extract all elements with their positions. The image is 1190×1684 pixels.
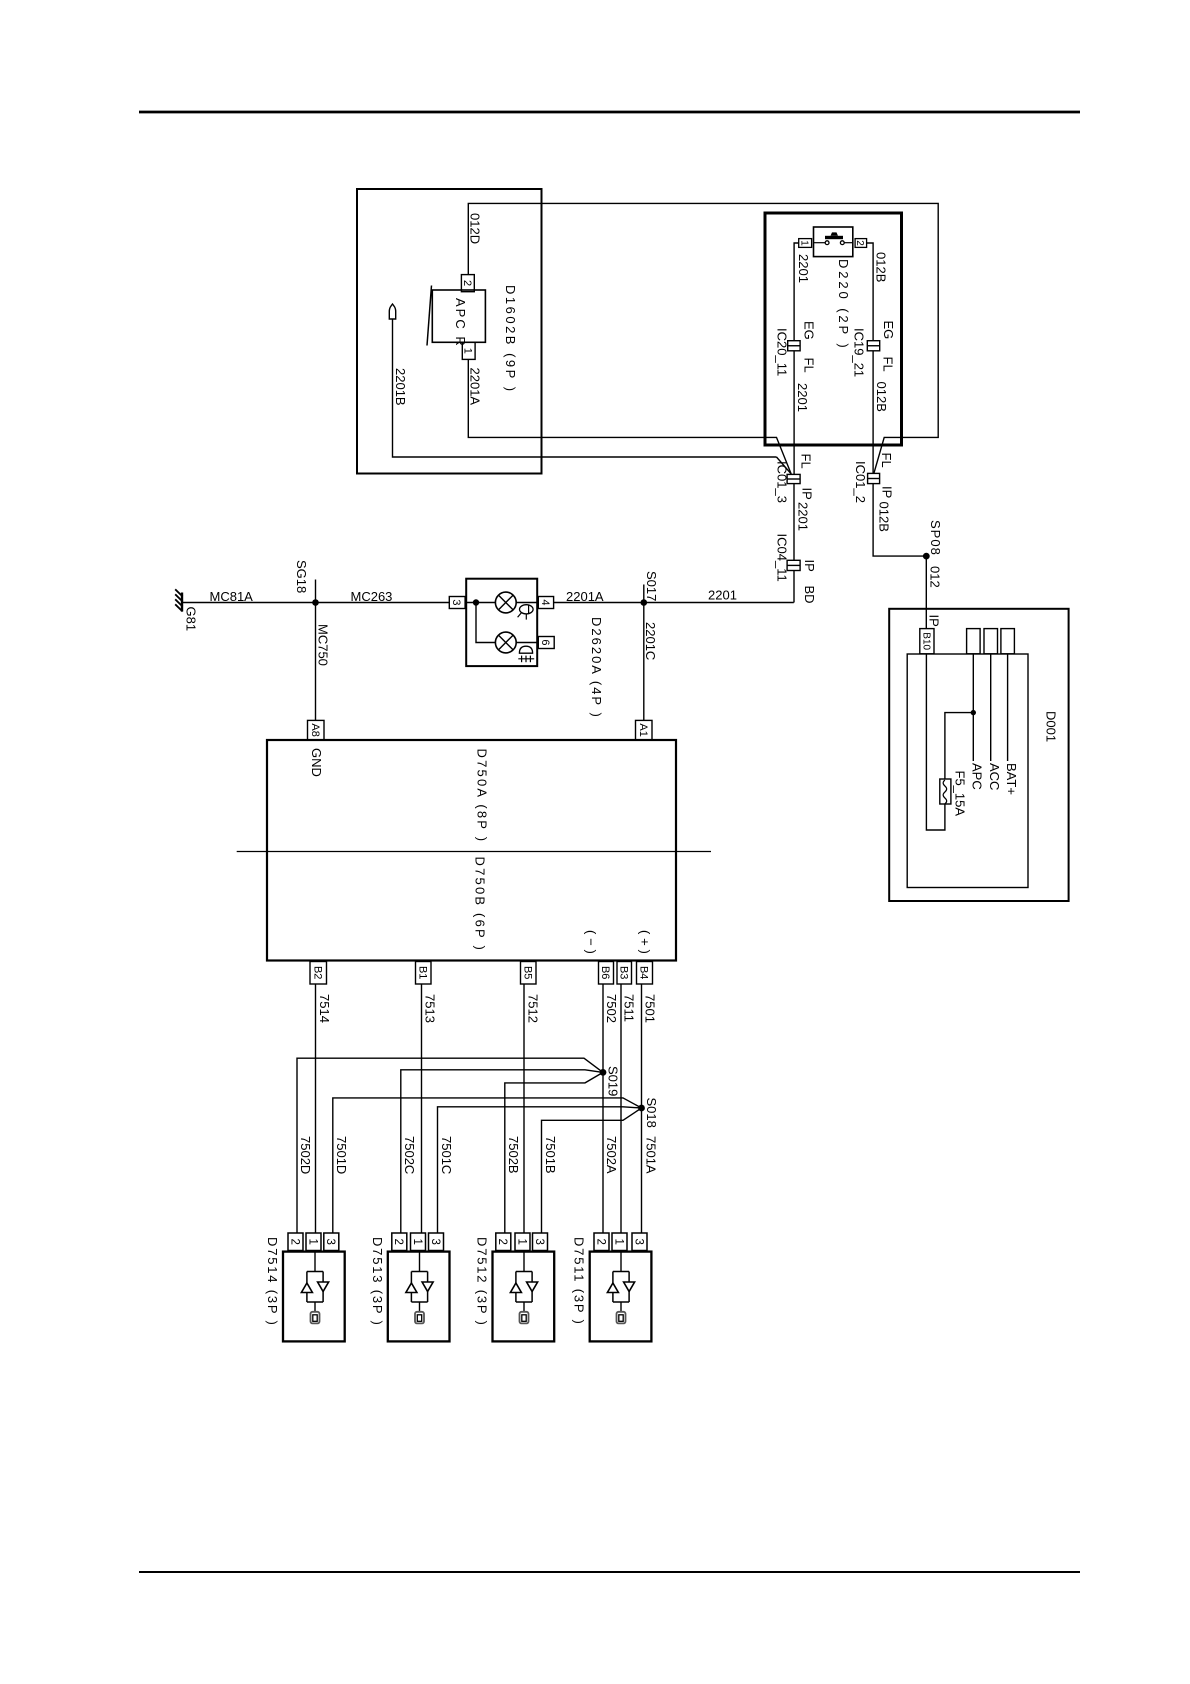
switch contact right (840, 241, 844, 245)
wire 7501B (542, 1108, 642, 1233)
svg-text:D7512 (3P ): D7512 (3P ) (475, 1237, 490, 1327)
svg-text:7513: 7513 (423, 994, 438, 1023)
wire top lamp to pin4 (516, 602, 538, 604)
svg-text:012B: 012B (874, 252, 889, 282)
pin 6 of D2620A (538, 637, 554, 649)
svg-text:B3: B3 (617, 966, 629, 979)
lamp L2 fog (495, 632, 516, 653)
pin B10 of D001 (920, 629, 934, 654)
svg-text:1: 1 (306, 1239, 318, 1245)
wire 7511 (620, 984, 622, 1233)
fog lamp icon (519, 646, 532, 653)
svg-text:BAT+: BAT+ (1004, 763, 1019, 795)
pin 2 of D220 (855, 239, 867, 248)
svg-text:2: 2 (496, 1239, 508, 1245)
svg-text:IC04_11: IC04_11 (775, 534, 790, 582)
wire 7502B (505, 1072, 603, 1233)
svg-text:2201A: 2201A (468, 368, 483, 406)
wire 7501D (333, 1098, 642, 1233)
svg-text:B10: B10 (920, 632, 931, 650)
wire 2201C (643, 603, 645, 721)
pin B5 of D750B (521, 962, 537, 985)
wire 7502D (297, 1058, 603, 1233)
wire ACC feed (990, 654, 992, 761)
pin 1 of D7513 (411, 1233, 426, 1251)
svg-text:7502: 7502 (604, 994, 619, 1023)
wire 012B EG side (867, 243, 874, 341)
svg-text:2201: 2201 (708, 588, 737, 603)
connector box D1602B (357, 189, 542, 474)
svg-text:2: 2 (854, 240, 865, 246)
wire 012B IP side (873, 484, 926, 556)
antenna terminal of wire 2201B (389, 304, 395, 319)
svg-text:SG18: SG18 (294, 560, 309, 593)
wire 2201B (393, 319, 777, 457)
ground G81 (181, 593, 183, 612)
wire 7513 (421, 984, 423, 1233)
svg-text:7501A: 7501A (644, 1136, 659, 1174)
svg-text:FL: FL (879, 453, 894, 468)
svg-text:D220 (2P ): D220 (2P ) (836, 259, 851, 351)
svg-text:3: 3 (450, 599, 462, 605)
wire 7512 (523, 984, 525, 1233)
svg-text:MC81A: MC81A (210, 589, 254, 604)
splice S017 (643, 585, 645, 603)
svg-text:B6: B6 (599, 966, 611, 979)
pin B3 of D750B (617, 962, 632, 985)
lamp unit box D2620A (466, 579, 537, 666)
wire 7501C (438, 1107, 642, 1233)
pin 3 of D7513 (429, 1233, 444, 1251)
pin 4 of D2620A (538, 597, 553, 609)
LED pair D1/D2 of D7512 (523, 1251, 525, 1272)
svg-text:S018: S018 (644, 1098, 659, 1128)
LED pair D1/D2 of D7511 (620, 1251, 622, 1272)
wire BD side down to node (793, 571, 795, 603)
svg-text:1: 1 (411, 1239, 423, 1245)
switch lead wires (814, 242, 826, 244)
control unit box D750A/D750B (267, 740, 676, 961)
splice SG18 (315, 580, 317, 603)
svg-text:2: 2 (288, 1239, 300, 1245)
LED unit box D7513 (388, 1252, 450, 1342)
wire 2201 EG side (794, 243, 799, 341)
pin A8 of D750A (308, 720, 325, 740)
pin 3 of D7514 (324, 1233, 339, 1251)
wire B10 to fuse (926, 654, 945, 830)
svg-text:GND: GND (309, 748, 324, 777)
pin B1 of D750B (416, 962, 432, 985)
svg-text:7502C: 7502C (402, 1136, 417, 1174)
splice SP08 (923, 553, 930, 560)
svg-text:IP: IP (802, 560, 817, 572)
svg-text:7511: 7511 (622, 994, 637, 1022)
switch contact left (825, 241, 829, 245)
svg-text:7501C: 7501C (439, 1136, 454, 1174)
svg-text:D7513 (3P ): D7513 (3P ) (370, 1237, 385, 1327)
svg-text:012D: 012D (468, 213, 483, 244)
svg-text:D750B (6P ): D750B (6P ) (473, 857, 488, 953)
svg-text:BD: BD (802, 586, 817, 604)
svg-text:IC01_3: IC01_3 (775, 461, 790, 503)
svg-text:1: 1 (462, 348, 474, 354)
svg-text:B5: B5 (521, 966, 533, 979)
svg-text:7514: 7514 (317, 994, 332, 1023)
svg-text:7502B: 7502B (506, 1136, 521, 1174)
bottom rule (139, 1571, 1080, 1573)
svg-text:2: 2 (392, 1239, 404, 1245)
LED pair D1/D2 of D7514 (314, 1251, 316, 1272)
wire 012D (468, 203, 938, 473)
wire 7501 (641, 984, 643, 1108)
relay armature Q lever (427, 286, 432, 346)
svg-text:FL: FL (881, 357, 896, 372)
svg-text:B2: B2 (311, 966, 323, 979)
wire fuse to APC line (945, 713, 973, 779)
pin 2 of D1602B (461, 275, 474, 292)
svg-text:7501: 7501 (643, 994, 658, 1023)
wire 2201 horizontal (554, 602, 794, 604)
pin 1 of D220 (799, 239, 812, 248)
svg-text:1: 1 (612, 1239, 624, 1245)
tail lamp icon (520, 605, 534, 614)
pin 3 of D2620A (449, 597, 465, 609)
pin B2 of D750B (310, 962, 327, 985)
inline connector IC19_21 (867, 341, 879, 351)
inline connector IC01_3 (787, 474, 800, 483)
svg-text:(−): (−) (584, 930, 599, 958)
svg-text:EG: EG (802, 321, 817, 340)
svg-text:4: 4 (539, 599, 551, 605)
svg-text:FL: FL (802, 358, 817, 373)
splice S018 (638, 1105, 645, 1112)
svg-text:SP08: SP08 (928, 520, 943, 556)
svg-text:IC19_21: IC19_21 (852, 328, 867, 377)
svg-text:IP: IP (927, 615, 942, 627)
svg-text:1: 1 (799, 240, 810, 246)
pin B6 of D750B (599, 962, 614, 985)
svg-text:G81: G81 (184, 607, 199, 632)
terminal tab ACC (984, 629, 998, 654)
svg-text:3: 3 (429, 1239, 441, 1245)
wire 7502 (602, 984, 604, 1072)
svg-text:7512: 7512 (526, 994, 541, 1023)
svg-text:IP: IP (800, 488, 815, 500)
svg-text:(+): (+) (638, 930, 653, 958)
pin 2 of D7512 (496, 1233, 511, 1251)
pin 2 of D7511 (594, 1233, 609, 1251)
wire APC feed (972, 654, 974, 761)
wire 7501A (641, 1108, 643, 1233)
switch actuator (825, 236, 843, 239)
inline connector IC20_11 (788, 341, 800, 351)
node in lamp box (473, 599, 479, 605)
LED unit box D7514 (283, 1252, 345, 1342)
svg-text:2201A: 2201A (566, 589, 604, 604)
wire 012B FL side (872, 351, 874, 474)
svg-text:ACC: ACC (987, 763, 1002, 790)
svg-text:012B: 012B (877, 502, 892, 532)
svg-text:2201C: 2201C (643, 622, 658, 660)
svg-text:2201B: 2201B (393, 368, 408, 406)
svg-text:3: 3 (324, 1239, 336, 1245)
svg-text:F5_15A: F5_15A (953, 771, 968, 817)
wire 2201 FL side (793, 351, 795, 475)
wire 7502C (401, 1070, 603, 1233)
svg-text:2: 2 (461, 280, 473, 286)
pin 1 of D1602B (462, 342, 475, 359)
pin 2 of D7513 (392, 1233, 407, 1251)
svg-text:A8: A8 (309, 723, 321, 736)
pin A1 of D750A (636, 720, 653, 740)
LED pair D1/D2 of D7513 (419, 1251, 421, 1272)
svg-text:3: 3 (632, 1239, 644, 1245)
svg-text:D750A (8P ): D750A (8P ) (475, 749, 490, 844)
wire 2201B lead to IC01_3 (777, 457, 792, 474)
wire bottom lamp to pin6 (516, 642, 538, 644)
svg-text:A1: A1 (637, 723, 649, 736)
svg-text:D7511 (3P ): D7511 (3P ) (572, 1237, 587, 1326)
svg-text:012B: 012B (874, 382, 889, 412)
svg-text:IC20_11: IC20_11 (775, 328, 790, 376)
svg-text:S019: S019 (606, 1066, 621, 1096)
terminal tab BAT+ (1001, 629, 1015, 654)
svg-text:1: 1 (515, 1239, 527, 1245)
pin B4 of D750B (637, 962, 653, 985)
divider line (237, 851, 711, 853)
svg-text:APC: APC (970, 763, 985, 790)
svg-text:D7514 (3P ): D7514 (3P ) (265, 1237, 280, 1327)
svg-text:EG: EG (881, 321, 896, 340)
node on APC line (971, 710, 976, 715)
wire MC750 (315, 603, 317, 721)
wire BAT+ feed (1007, 654, 1009, 761)
svg-text:B1: B1 (416, 966, 428, 979)
svg-text:B4: B4 (638, 966, 650, 979)
pin 1 of D7512 (515, 1233, 530, 1251)
switch box D220 (765, 213, 902, 445)
svg-text:IP: IP (880, 486, 895, 498)
fuse F5_15A (940, 779, 951, 804)
svg-text:6: 6 (539, 639, 551, 645)
switch S1 body (814, 227, 853, 257)
wire 7502A (602, 1072, 604, 1233)
pin 3 of D7511 (632, 1233, 647, 1251)
fuse box D001 outer (889, 609, 1068, 901)
pin 3 of D7512 (533, 1233, 548, 1251)
fuse box D001 inner unit (907, 654, 1028, 888)
svg-text:2201: 2201 (796, 254, 811, 283)
pin 1 of D7514 (306, 1233, 321, 1251)
svg-text:MC750: MC750 (316, 624, 331, 666)
lamp L1 tail (495, 592, 516, 613)
svg-text:D2620A (4P ): D2620A (4P ) (589, 617, 604, 719)
top rule (139, 111, 1080, 114)
wire to top lamp (466, 602, 495, 604)
svg-text:D1602B (9P ): D1602B (9P ) (503, 285, 518, 394)
terminal tab APC (967, 629, 981, 654)
wire to bottom lamp (476, 603, 495, 643)
wire 2201 IP side (793, 484, 795, 561)
svg-text:012: 012 (928, 566, 943, 588)
svg-text:3: 3 (533, 1239, 545, 1245)
wire MC81A (183, 602, 450, 604)
inline connector IC04_11 (787, 560, 800, 570)
wire 2201A (468, 359, 791, 473)
svg-text:2: 2 (594, 1239, 606, 1245)
pin 1 of D7511 (612, 1233, 627, 1251)
svg-text:S017: S017 (644, 571, 659, 601)
svg-text:D001: D001 (1044, 711, 1059, 742)
wire 7514 (315, 984, 317, 1233)
svg-text:7502D: 7502D (298, 1136, 313, 1174)
LED unit box D7511 (590, 1252, 652, 1342)
svg-text:APC R: APC R (453, 298, 468, 348)
LED unit box D7512 (493, 1252, 555, 1342)
svg-text:MC263: MC263 (351, 589, 393, 604)
wire 012 (925, 556, 927, 629)
svg-text:IC01_2: IC01_2 (853, 461, 868, 503)
svg-text:7501D: 7501D (334, 1136, 349, 1174)
svg-text:2201: 2201 (796, 502, 811, 531)
splice S019 (600, 1069, 607, 1076)
svg-text:7501B: 7501B (543, 1136, 558, 1174)
relay coil box APC RELAY U1 (432, 290, 485, 342)
svg-text:2201: 2201 (795, 383, 810, 412)
pin 2 of D7514 (288, 1233, 303, 1251)
svg-text:FL: FL (799, 454, 814, 469)
inline connector IC01_2 (868, 473, 880, 483)
svg-text:7502A: 7502A (604, 1136, 619, 1174)
